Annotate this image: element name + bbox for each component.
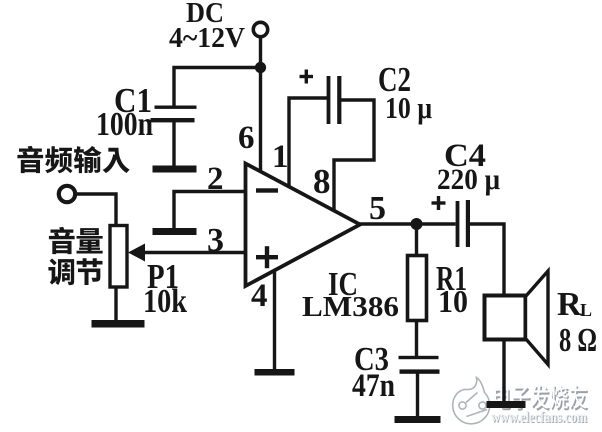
audio input terminal <box>59 186 75 202</box>
svg-text:100n: 100n <box>96 106 153 143</box>
svg-text:47n: 47n <box>352 368 395 404</box>
svg-text:8: 8 <box>313 162 331 201</box>
wire P1 bottom to ground <box>114 287 117 321</box>
wire pin2 to ground <box>174 192 246 230</box>
svg-text:www.elecfans.com: www.elecfans.com <box>491 409 587 426</box>
svg-text:LM386: LM386 <box>302 291 399 323</box>
watermark logo elecfans <box>453 378 490 424</box>
capacitor C2 plates <box>327 76 331 124</box>
ground (speaker) <box>487 401 526 408</box>
ground (C1) <box>153 166 197 173</box>
svg-text:L: L <box>580 300 592 320</box>
wire pin4 to ground <box>273 269 276 370</box>
svg-text:8 Ω: 8 Ω <box>559 322 597 359</box>
potentiometer P1 wiper arrow <box>128 244 145 262</box>
wire DC terminal to node A <box>259 38 262 68</box>
speaker RL body <box>485 296 526 340</box>
ground (P1) <box>92 320 145 328</box>
wire input to P1 <box>77 194 117 226</box>
resistor R1 body <box>408 256 427 321</box>
wire node B to R1 <box>415 224 418 256</box>
wire pin5 to C4 <box>359 222 456 225</box>
op-amp U1 LM386 triangle <box>246 164 361 287</box>
capacitor C4 plates <box>456 201 460 247</box>
watermark text 电子发烧友 <box>496 387 512 411</box>
svg-text:4: 4 <box>251 278 268 314</box>
wire pin1 to C2 <box>289 98 327 189</box>
svg-text:R: R <box>557 286 582 323</box>
wire C2 to pin8 <box>334 100 374 212</box>
capacitor C1 plates <box>155 106 197 109</box>
wire C4 to speaker <box>470 224 505 296</box>
node A junction dot <box>255 62 266 73</box>
wire node A to pin6 <box>259 68 262 174</box>
wire P1 wiper to pin3 <box>142 251 246 254</box>
ground (pin2) <box>153 228 197 235</box>
ground (pin4) <box>255 369 295 376</box>
speaker RL cone <box>526 271 549 365</box>
wire node A to C1 <box>174 68 261 107</box>
svg-text:220 μ: 220 μ <box>437 163 500 196</box>
capacitor C3 plates <box>399 356 439 359</box>
ground (C3) <box>395 416 441 423</box>
wire C3 to ground <box>416 372 419 417</box>
label 音频输入 <box>17 146 43 173</box>
svg-text:5: 5 <box>369 190 386 227</box>
node B junction dot <box>411 218 423 230</box>
C2 polarity + <box>300 75 314 78</box>
op-amp inverting input minus <box>256 188 278 192</box>
op-amp non-inverting input plus <box>256 255 278 259</box>
svg-text:10 μ: 10 μ <box>385 90 432 125</box>
wire C1 to ground <box>172 121 175 167</box>
potentiometer P1 body <box>110 226 127 288</box>
svg-text:10k: 10k <box>143 283 187 320</box>
label 音量 <box>49 227 75 254</box>
svg-text:1: 1 <box>272 139 289 175</box>
svg-text:10: 10 <box>438 283 468 319</box>
svg-text:6: 6 <box>238 120 255 156</box>
svg-text:2: 2 <box>207 161 224 197</box>
svg-text:4~12V: 4~12V <box>169 22 245 54</box>
wire speaker to ground <box>502 339 505 402</box>
C4 polarity + <box>432 201 446 204</box>
label 调节 <box>48 259 74 286</box>
DC input terminal <box>253 22 267 36</box>
svg-text:3: 3 <box>207 222 224 259</box>
wire R1 to C3 <box>415 320 418 356</box>
